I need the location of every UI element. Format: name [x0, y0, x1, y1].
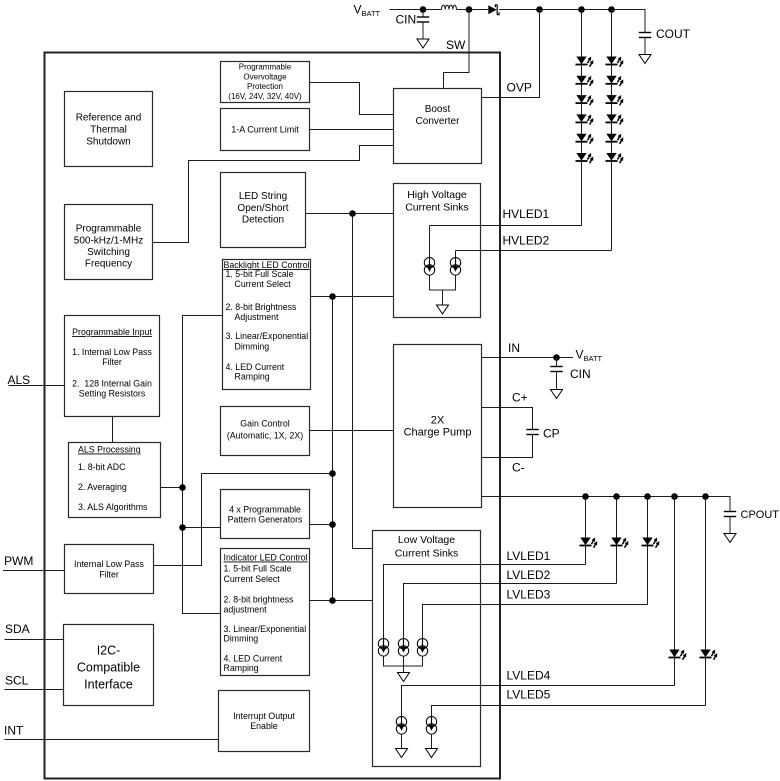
- wire: ALS bus to pattern generators: [183, 527, 221, 529]
- svg-text:CIN: CIN: [570, 367, 591, 381]
- svg-text:SDA: SDA: [5, 622, 30, 636]
- svg-text:Current Select: Current Select: [235, 279, 292, 289]
- wire: ALS input pin: [9, 385, 65, 387]
- block: Programmable Overvoltage Protection: [221, 62, 310, 103]
- wire: SDA input pin: [5, 639, 64, 641]
- svg-text:Ramping: Ramping: [235, 372, 270, 382]
- wire: ALS processing output to ALS bus: [161, 487, 183, 489]
- inductor L1: [442, 5, 457, 9]
- svg-text:SCL: SCL: [5, 674, 29, 688]
- wire: SCL input pin: [5, 689, 64, 691]
- svg-text:Gain Control: Gain Control: [240, 418, 289, 428]
- svg-text:High Voltage: High Voltage: [407, 189, 467, 201]
- current sink LVLED1: [378, 639, 388, 657]
- LED string 1 (6 LEDs): [576, 55, 596, 67]
- node: OVP junction on rail: [536, 6, 543, 13]
- svg-text:OVP: OVP: [507, 81, 532, 95]
- current sink LVLED3: [417, 639, 427, 657]
- current sink LVLED5: [426, 717, 436, 735]
- wire: C- pin to flying capacitor: [482, 435, 533, 458]
- block: Programmable 500-kHz/1-MHz Switching Frequency: [65, 205, 153, 280]
- LED LVLED4: [669, 648, 689, 660]
- wire: backlight LED control to high voltage current sinks: [311, 296, 394, 298]
- svg-text:PWM: PWM: [4, 554, 33, 568]
- wire: charge pump output rail: [482, 497, 731, 512]
- node: LVLED5 junction: [702, 493, 709, 500]
- schottky diode D1: [488, 5, 499, 15]
- block: Internal Low Pass Filter: [65, 545, 154, 594]
- ground (charge pump CIN): [551, 390, 563, 399]
- LED LVLED3: [642, 536, 662, 548]
- svg-text:1. 8-bit ADC: 1. 8-bit ADC: [78, 462, 126, 472]
- block: Interrupt Output Enable: [219, 691, 310, 752]
- svg-text:ALS Processing: ALS Processing: [78, 445, 141, 455]
- wire: C+ pin to flying capacitor: [482, 408, 533, 430]
- wire: ALS bus into backlight LED control: [183, 316, 223, 614]
- svg-text:Adjustment: Adjustment: [235, 312, 280, 322]
- node: HVLED1 string junction: [578, 6, 585, 13]
- wire: overvoltage protection to boost converter: [310, 83, 394, 115]
- svg-text:Pattern Generators: Pattern Generators: [228, 515, 303, 525]
- svg-text:HVLED2: HVLED2: [503, 234, 550, 248]
- wire: LVLED3 string conductor: [647, 497, 649, 605]
- svg-text:Overvoltage: Overvoltage: [243, 72, 287, 81]
- svg-text:adjustment: adjustment: [224, 604, 268, 614]
- svg-text:2. 8-bit brightness: 2. 8-bit brightness: [224, 595, 295, 605]
- capacitor COUT: [639, 33, 651, 55]
- svg-text:CP: CP: [543, 427, 560, 441]
- svg-text:LVLED5: LVLED5: [507, 688, 551, 702]
- svg-text:Indicator LED Control: Indicator LED Control: [224, 553, 308, 563]
- svg-text:Programmable: Programmable: [239, 63, 292, 72]
- svg-text:Programmable: Programmable: [76, 224, 142, 235]
- wire: LVLED4 pin line: [402, 686, 675, 717]
- svg-text:4. LED Current: 4. LED Current: [224, 653, 283, 663]
- wire: LVLED2 string conductor: [616, 497, 618, 584]
- block: I2C-Compatible Interface: [64, 625, 154, 706]
- block: Low Voltage Current Sinks: [373, 531, 481, 767]
- svg-text:INT: INT: [4, 724, 24, 738]
- wire: vertical bus from open/short junction to low voltage current sinks: [353, 214, 373, 549]
- svg-text:LVLED2: LVLED2: [507, 568, 551, 582]
- ground (LV sinks 1-3): [398, 673, 410, 682]
- ground (HV current sinks): [437, 305, 449, 314]
- node: junction ALS bus at ALS processing output: [179, 484, 186, 491]
- block: Boost Converter: [394, 89, 482, 164]
- wire: LED string open/short detection to high voltage current sinks: [306, 213, 394, 215]
- svg-text:SW: SW: [446, 38, 466, 52]
- svg-text:C+: C+: [512, 391, 528, 405]
- svg-text:Enable: Enable: [250, 721, 277, 731]
- block: Reference and Thermal Shutdown: [65, 92, 153, 167]
- svg-text:Frequency: Frequency: [85, 259, 132, 270]
- wire: indicator LED control to low voltage current sinks: [310, 600, 373, 602]
- capacitor CIN (charge pump input): [550, 358, 562, 390]
- node: junction on open/short wire: [349, 210, 356, 217]
- wire: HVLED2 pin line: [456, 251, 612, 258]
- svg-text:4 x Programmable: 4 x Programmable: [229, 505, 301, 515]
- block: ALS Processing: [69, 443, 161, 518]
- wire: PWM low pass filter output to control bus: [154, 474, 333, 566]
- svg-text:CPOUT: CPOUT: [741, 509, 780, 521]
- node: junction control bus at indicator output: [329, 597, 336, 604]
- node: junction control bus at pattern generators output: [329, 521, 336, 528]
- node: LVLED3 junction: [644, 493, 651, 500]
- svg-text:Low Voltage: Low Voltage: [398, 534, 455, 546]
- svg-text:ALS: ALS: [8, 373, 31, 387]
- svg-text:500-kHz/1-MHz: 500-kHz/1-MHz: [74, 235, 143, 246]
- node: IN / CIN junction: [553, 354, 560, 361]
- node: LVLED1 junction: [582, 493, 589, 500]
- wire: HVLED2 string conductor: [611, 10, 613, 251]
- ground (CPOUT): [724, 534, 736, 543]
- wire: boost output rail: [499, 10, 645, 33]
- svg-text:C-: C-: [512, 461, 525, 475]
- svg-text:COUT: COUT: [656, 27, 691, 41]
- svg-text:Current Sinks: Current Sinks: [405, 202, 469, 214]
- wire: programmable input to ALS processing: [112, 417, 114, 443]
- wire: HV sinks to common ground: [430, 275, 456, 305]
- svg-text:Filter: Filter: [102, 357, 122, 367]
- wire: switching frequency to boost converter: [153, 146, 394, 243]
- node: LVLED4 junction: [671, 493, 678, 500]
- block: Gain Control: [221, 407, 310, 456]
- svg-text:3. ALS Algorithms: 3. ALS Algorithms: [78, 502, 148, 512]
- ground (LV sink 4): [396, 749, 408, 758]
- wire: 1-A current limit to boost converter: [310, 129, 394, 131]
- svg-text:I2C-: I2C-: [97, 643, 121, 657]
- wire: IN pin to VBATT: [482, 357, 574, 359]
- svg-text:Interface: Interface: [84, 677, 133, 691]
- wire: INT pin to interrupt output enable: [5, 739, 219, 741]
- svg-text:Programmable Input: Programmable Input: [72, 327, 152, 337]
- block: Programmable Input: [65, 316, 160, 417]
- ground (COUT): [639, 55, 651, 64]
- svg-text:Ramping: Ramping: [224, 663, 259, 673]
- capacitor CPOUT: [724, 512, 736, 534]
- svg-text:Interrupt Output: Interrupt Output: [233, 711, 295, 721]
- LED LVLED2: [611, 536, 631, 548]
- svg-text:IN: IN: [508, 341, 520, 355]
- IC boundary: [45, 53, 501, 779]
- current sink HVLED1: [424, 258, 434, 276]
- wire: HVLED1 pin line: [430, 226, 582, 258]
- svg-text:3. Linear/Exponential: 3. Linear/Exponential: [226, 331, 309, 341]
- svg-text:Current Select: Current Select: [224, 574, 281, 584]
- svg-text:Reference and: Reference and: [76, 113, 142, 124]
- wire: LVLED1 pin line: [384, 565, 586, 639]
- svg-text:CIN: CIN: [396, 13, 417, 27]
- svg-text:Dimming: Dimming: [235, 341, 270, 351]
- current sink HVLED2: [450, 258, 460, 276]
- svg-text:Boost: Boost: [425, 104, 451, 115]
- svg-text:Open/Short: Open/Short: [237, 203, 288, 214]
- svg-text:1. 5-bit Full Scale: 1. 5-bit Full Scale: [224, 564, 292, 574]
- LED string 2 (6 LEDs): [606, 55, 626, 67]
- block: 2X Charge Pump: [394, 345, 482, 508]
- block: LED String Open/Short Detection: [221, 173, 306, 248]
- svg-text:Thermal: Thermal: [90, 125, 127, 136]
- wire: LVLED3 pin line: [423, 605, 648, 639]
- LED LVLED5: [700, 648, 720, 660]
- svg-text:1-A Current Limit: 1-A Current Limit: [231, 125, 299, 135]
- svg-text:2X: 2X: [431, 414, 445, 426]
- svg-text:Converter: Converter: [416, 116, 461, 127]
- wire: LVLED5 pin line: [432, 706, 706, 717]
- wire: LVLED5 sink to ground: [431, 734, 433, 748]
- svg-text:Dimming: Dimming: [224, 634, 259, 644]
- block: Backlight LED Control: [223, 260, 311, 390]
- node: junction control bus at PWM wire: [329, 470, 336, 477]
- wire: LVLED4 sink to ground: [401, 734, 403, 748]
- wire: pattern generators output to control bus: [310, 524, 333, 526]
- svg-text:Setting Resistors: Setting Resistors: [79, 389, 146, 399]
- svg-text:3. Linear/Exponential: 3. Linear/Exponential: [224, 624, 307, 634]
- node: SW junction: [466, 6, 473, 13]
- svg-text:Current Sinks: Current Sinks: [395, 548, 459, 560]
- block: Indicator LED Control: [221, 549, 310, 676]
- wire: inductor to diode: [457, 9, 489, 11]
- svg-text:2. 8-bit Brightness: 2. 8-bit Brightness: [226, 302, 298, 312]
- wire: VBATT feed to inductor: [390, 9, 442, 11]
- svg-text:2. 128 Internal Gain: 2. 128 Internal Gain: [72, 379, 152, 389]
- node: LVLED2 junction: [613, 493, 620, 500]
- svg-text:1. Internal Low Pass: 1. Internal Low Pass: [72, 347, 152, 357]
- svg-text:Compatible: Compatible: [77, 660, 140, 674]
- wire: PWM input pin: [3, 570, 65, 572]
- block: High Voltage Current Sinks: [394, 184, 481, 318]
- svg-text:HVLED1: HVLED1: [503, 207, 550, 221]
- capacitor CIN: [417, 10, 429, 40]
- node: junction backlight bus: [329, 293, 336, 300]
- svg-text:(Automatic, 1X, 2X): (Automatic, 1X, 2X): [227, 431, 303, 441]
- wire: HVLED1 string conductor: [581, 10, 583, 226]
- svg-text:1. 5-bit Full Scale: 1. 5-bit Full Scale: [226, 269, 294, 279]
- current sink LVLED2: [398, 639, 408, 657]
- current sink LVLED4: [396, 717, 406, 735]
- wire: LV sinks 1-3 to common ground: [384, 656, 423, 672]
- wire: vertical control bus x=334: [332, 297, 334, 601]
- svg-text:LVLED1: LVLED1: [507, 549, 551, 563]
- LED LVLED1: [580, 536, 600, 548]
- ground (LV sink 5): [426, 749, 438, 758]
- svg-text:LVLED4: LVLED4: [507, 669, 551, 683]
- capacitor CP: [526, 430, 538, 435]
- block: 4 x Programmable Pattern Generators: [221, 490, 310, 539]
- wire: gain control to charge pump: [310, 430, 394, 432]
- svg-text:Protection: Protection: [247, 82, 283, 91]
- svg-text:Filter: Filter: [99, 569, 119, 579]
- svg-text:2. Averaging: 2. Averaging: [78, 482, 127, 492]
- svg-text:Switching: Switching: [87, 247, 130, 258]
- svg-text:(16V, 24V, 32V, 40V): (16V, 24V, 32V, 40V): [228, 92, 302, 101]
- wire: SW pin from rail into boost converter: [444, 10, 470, 89]
- svg-text:Shutdown: Shutdown: [86, 137, 130, 148]
- node: VBATT / CIN junction: [420, 6, 427, 13]
- svg-text:4. LED Current: 4. LED Current: [226, 362, 285, 372]
- block: 1-A Current Limit: [221, 109, 310, 151]
- ground (CIN): [417, 39, 429, 48]
- svg-text:LVLED3: LVLED3: [507, 588, 551, 602]
- wire: LVLED1 string conductor: [585, 497, 587, 565]
- node: HVLED2 string junction: [608, 6, 615, 13]
- node: junction ALS bus at pattern generators: [179, 524, 186, 531]
- wire: OVP pin from boost converter to rail: [482, 10, 540, 98]
- wire: LVLED2 pin line: [404, 584, 617, 639]
- wire: LVLED5 string conductor: [705, 497, 707, 706]
- svg-text:Charge Pump: Charge Pump: [404, 426, 472, 438]
- svg-text:Internal Low Pass: Internal Low Pass: [74, 559, 145, 569]
- wire: LVLED4 string conductor: [674, 497, 676, 686]
- svg-text:Detection: Detection: [242, 215, 284, 226]
- svg-text:LED String: LED String: [239, 191, 287, 202]
